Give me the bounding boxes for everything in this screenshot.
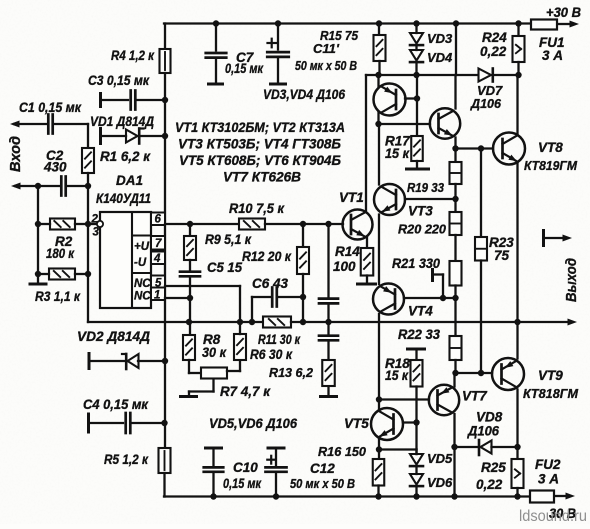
svg-text:R11 30 к: R11 30 к <box>258 332 301 347</box>
svg-text:VD3,VD4 Д106: VD3,VD4 Д106 <box>263 87 345 102</box>
svg-text:Д106: Д106 <box>467 424 499 439</box>
svg-text:1: 1 <box>154 290 160 302</box>
svg-text:3 А: 3 А <box>538 472 559 487</box>
svg-text:ldsound.ru: ldsound.ru <box>519 508 587 524</box>
svg-text:3: 3 <box>93 227 100 239</box>
svg-text:R9 5,1 к: R9 5,1 к <box>205 232 252 247</box>
svg-text:180 к: 180 к <box>46 246 75 261</box>
svg-text:R21 330: R21 330 <box>392 256 440 271</box>
svg-text:+U: +U <box>134 241 150 253</box>
svg-text:15 к: 15 к <box>385 146 410 161</box>
svg-text:R12 20 к: R12 20 к <box>242 249 292 264</box>
svg-text:0,15 мк: 0,15 мк <box>223 476 262 491</box>
svg-text:R19 33: R19 33 <box>407 180 445 195</box>
svg-text:R5 1,2 к: R5 1,2 к <box>104 452 149 467</box>
svg-text:К140УД11: К140УД11 <box>96 191 151 206</box>
svg-text:3 А: 3 А <box>542 48 563 63</box>
svg-text:VT5: VT5 <box>344 416 369 431</box>
svg-text:VD2 Д814Д: VD2 Д814Д <box>77 329 150 344</box>
svg-text:C4 0,15 мк: C4 0,15 мк <box>83 397 149 412</box>
svg-text:VT7 КТ626В: VT7 КТ626В <box>223 169 301 185</box>
svg-text:R10 7,5 к: R10 7,5 к <box>229 201 285 216</box>
svg-text:-U: -U <box>134 257 147 269</box>
svg-text:15 к: 15 к <box>385 368 409 383</box>
svg-text:C1 0,15 мк: C1 0,15 мк <box>19 100 82 115</box>
svg-text:R25: R25 <box>481 460 506 475</box>
svg-text:FU2: FU2 <box>535 457 561 472</box>
svg-text:50 мк x 50 В: 50 мк x 50 В <box>295 58 357 73</box>
svg-text:DA1: DA1 <box>116 173 143 188</box>
svg-text:КТ819ГМ: КТ819ГМ <box>524 158 578 173</box>
svg-text:VT8: VT8 <box>538 140 563 155</box>
svg-text:VT3 КТ503Б; VT4 ГТ308Б: VT3 КТ503Б; VT4 ГТ308Б <box>178 136 341 152</box>
svg-text:R6 30 к: R6 30 к <box>250 347 293 362</box>
svg-text:Вход: Вход <box>8 136 24 172</box>
svg-text:0,22: 0,22 <box>476 477 503 492</box>
svg-text:50 мк x 50 В: 50 мк x 50 В <box>290 477 355 491</box>
svg-text:VT5 КТ608Б; VT6 КТ904Б: VT5 КТ608Б; VT6 КТ904Б <box>179 152 341 168</box>
svg-text:NC: NC <box>134 291 151 303</box>
svg-text:VT1: VT1 <box>339 190 364 205</box>
svg-text:+30 В: +30 В <box>546 5 581 20</box>
svg-text:R22 33: R22 33 <box>398 327 440 342</box>
svg-text:КТ818ГМ: КТ818ГМ <box>523 386 579 401</box>
svg-text:C6 43: C6 43 <box>252 276 288 291</box>
svg-text:VD8: VD8 <box>476 410 503 425</box>
svg-text:75: 75 <box>494 248 510 263</box>
svg-text:VT1 КТ3102БМ; VT2 КТ313А: VT1 КТ3102БМ; VT2 КТ313А <box>175 119 345 135</box>
svg-text:R20 220: R20 220 <box>398 222 447 237</box>
svg-text:Д106: Д106 <box>470 96 502 111</box>
svg-text:6: 6 <box>155 214 162 226</box>
svg-text:Выход: Выход <box>564 258 580 302</box>
svg-text:VT3: VT3 <box>408 204 433 219</box>
svg-text:VD5: VD5 <box>427 451 453 466</box>
svg-text:VD6: VD6 <box>427 475 453 490</box>
svg-text:430: 430 <box>43 160 67 175</box>
svg-text:100: 100 <box>333 259 356 274</box>
svg-text:2: 2 <box>91 214 99 226</box>
svg-text:VT7: VT7 <box>462 389 488 404</box>
svg-text:VD3: VD3 <box>427 31 453 46</box>
svg-text:R3 1,1 к: R3 1,1 к <box>35 289 81 304</box>
svg-text:C11': C11' <box>313 41 340 56</box>
svg-text:R13 6,2: R13 6,2 <box>269 365 314 380</box>
svg-text:C10: C10 <box>233 460 258 475</box>
svg-text:C5 15: C5 15 <box>207 260 242 275</box>
svg-text:0,15 мк: 0,15 мк <box>225 61 264 76</box>
svg-text:VD5,VD6 Д106: VD5,VD6 Д106 <box>209 416 297 431</box>
svg-text:VT4: VT4 <box>408 304 433 319</box>
svg-text:R4 1,2 к: R4 1,2 к <box>111 48 155 63</box>
svg-text:R24: R24 <box>482 30 507 45</box>
svg-text:VT9: VT9 <box>538 368 563 383</box>
svg-text:0,22: 0,22 <box>480 44 507 59</box>
svg-text:NC: NC <box>134 278 151 290</box>
svg-text:R1 6,2 к: R1 6,2 к <box>100 149 151 164</box>
svg-text:7: 7 <box>155 238 162 250</box>
svg-text:30 к: 30 к <box>202 345 227 360</box>
svg-text:VD4: VD4 <box>427 50 453 65</box>
svg-text:C3 0,15 мк: C3 0,15 мк <box>88 73 150 88</box>
svg-text:5: 5 <box>155 278 162 290</box>
svg-text:R7 4,7 к: R7 4,7 к <box>220 384 271 399</box>
svg-text:VD1 Д814Д: VD1 Д814Д <box>90 114 154 129</box>
svg-text:4: 4 <box>153 253 161 265</box>
svg-text:R16 150: R16 150 <box>318 444 367 459</box>
svg-text:C12: C12 <box>310 461 335 476</box>
svg-text:R14: R14 <box>335 244 360 259</box>
